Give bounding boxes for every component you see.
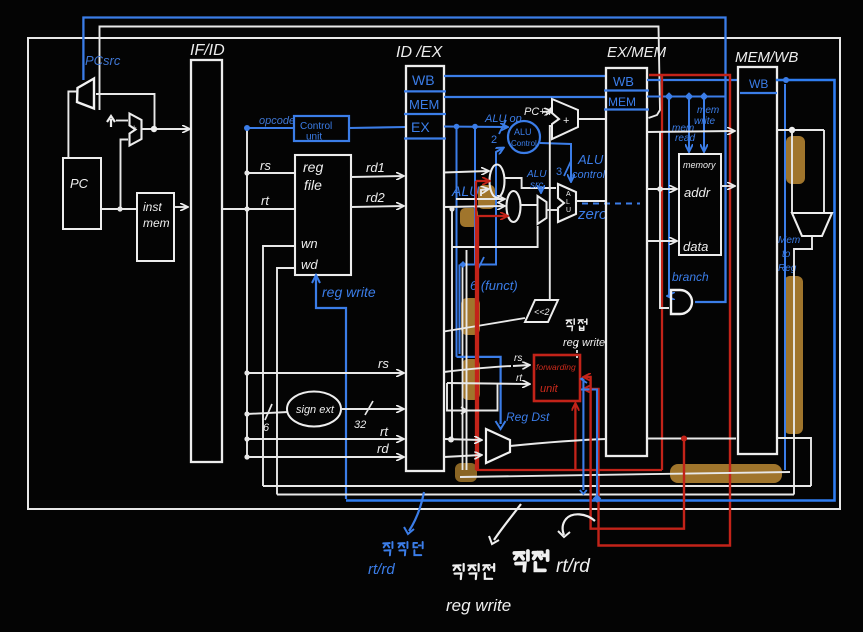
label previous rt/rd (white) xyxy=(514,551,547,571)
annotation arrow blue (to rt/rd bus) xyxy=(409,492,424,531)
wire: PC+4 out to IF/ID xyxy=(142,128,190,130)
mux ALUsrc xyxy=(538,196,547,224)
svg-text:rt/rd: rt/rd xyxy=(556,556,591,577)
wire: rd down to ID/EX xyxy=(247,456,403,458)
outer frame xyxy=(28,38,840,509)
wire: rt into forwarding unit xyxy=(447,383,529,384)
ALU xyxy=(558,184,576,222)
node: ALU result junction xyxy=(657,186,663,192)
pipeline register MEM/WB xyxy=(738,67,777,454)
svg-text:unit: unit xyxy=(306,132,322,143)
svg-text:to: to xyxy=(782,249,791,260)
wire: PC to +4 adder xyxy=(121,140,129,210)
wire: dashed hint into unit top xyxy=(576,344,578,358)
wire: store data to memory xyxy=(647,240,676,242)
wire: red up into forwarding unit bottom xyxy=(574,404,576,470)
wire: rd into Reg Dst mux xyxy=(444,455,481,457)
node: PC+4 junction xyxy=(151,126,157,132)
svg-text:Mem: Mem xyxy=(778,235,800,246)
wire: wd write-back xyxy=(277,268,295,495)
wire: reg write loop (blue) MEM/WB to reg file xyxy=(346,80,835,501)
svg-text:data: data xyxy=(683,239,708,254)
wire: ALU control to ALU xyxy=(540,143,571,181)
wire: control verticals in EX xyxy=(456,127,458,357)
svg-text:ALU: ALU xyxy=(514,127,532,137)
highlight bar (MEM/WB right upper) xyxy=(786,136,805,184)
svg-text:reg write: reg write xyxy=(563,337,605,349)
svg-text:reg: reg xyxy=(303,159,323,175)
wire: opcode to control unit xyxy=(247,127,294,129)
register PC xyxy=(63,158,101,229)
svg-text:Control: Control xyxy=(300,121,332,132)
svg-text:rt/rd: rt/rd xyxy=(368,561,395,578)
highlight bar (EX mux area upper) xyxy=(478,185,495,209)
wire: funct field to ALU control xyxy=(460,148,503,265)
svg-text:+: + xyxy=(563,115,569,127)
wire: PC+4 feedback into PCsrc mux xyxy=(96,94,155,129)
memory inst mem xyxy=(137,193,174,261)
wire: reg2 vertical tap xyxy=(451,209,453,440)
svg-text:Reg Dst: Reg Dst xyxy=(506,410,550,424)
svg-text:MEM: MEM xyxy=(409,97,439,112)
node: PC out junction xyxy=(117,206,122,211)
wire: branch target from EX adder back to PC mux (white, top) xyxy=(100,27,661,119)
svg-text:wn: wn xyxy=(301,236,318,251)
wire: forward B red xyxy=(478,215,507,217)
wire: shift left 2 to adder xyxy=(550,126,553,300)
mux forward B xyxy=(507,191,521,222)
wire: rs into reg file xyxy=(247,172,295,174)
svg-text:+: + xyxy=(132,123,137,133)
wire: vertical beside funct bars xyxy=(466,250,468,470)
wire: Reg Dst control down to mux (blue) xyxy=(457,357,501,424)
wire: mux A out to ALU xyxy=(504,178,556,188)
highlight bar (funct column lower) xyxy=(462,359,480,400)
wire: MEM control line with taps (blue) xyxy=(647,95,726,97)
wire: red into unit right (from EX/MEM tap) xyxy=(584,377,684,529)
wire: blue MEM/WB rd into unit xyxy=(581,390,597,499)
wire: rt into Reg Dst mux xyxy=(444,439,481,440)
svg-text:reg write: reg write xyxy=(322,284,376,300)
bus width 32 xyxy=(365,401,373,415)
wire: PC out to inst mem xyxy=(101,208,137,210)
highlight bar (funct column upper) xyxy=(461,298,480,335)
wire: rd1 to ID/EX xyxy=(351,176,403,177)
svg-text:rd1: rd1 xyxy=(366,160,385,175)
svg-text:L: L xyxy=(566,199,570,206)
svg-text:MEM/WB: MEM/WB xyxy=(735,49,798,66)
svg-text:memory: memory xyxy=(683,160,716,170)
wire: ALU result to EX/MEM xyxy=(576,200,606,202)
svg-text:addr: addr xyxy=(684,185,711,200)
svg-text:rt: rt xyxy=(261,193,270,208)
wire: WB signal EX/MEM to MEM/WB (blue) xyxy=(647,79,738,81)
register file xyxy=(295,155,351,275)
svg-text:rs: rs xyxy=(260,158,271,173)
wire: memory data to final mux xyxy=(777,129,824,131)
wire: PCsrc mux out to PC xyxy=(68,92,77,158)
wire: rt tap loop below forwarding inputs xyxy=(447,383,498,411)
wire: write-back lower horizontal (wd loop) xyxy=(277,494,794,496)
highlight bar (horizontal, write-back line) xyxy=(670,464,782,483)
wire: red horizontal to EX/MEM tap xyxy=(476,469,662,471)
wire: write-back lower horizontal (wn loop) xyxy=(263,485,811,487)
node: opcode tap xyxy=(244,125,250,131)
mux mem-to-reg xyxy=(792,213,832,236)
wire: rs down to ID/EX xyxy=(247,372,403,374)
wire: sign ext out to ID/EX xyxy=(341,408,403,410)
svg-text:6: 6 xyxy=(263,422,270,434)
svg-text:ALU: ALU xyxy=(577,152,604,167)
label previous reg write (white, above unit) xyxy=(566,319,587,331)
highlight bar (MEM/WB right long) xyxy=(784,276,803,434)
wire: dest register number through EX/MEM xyxy=(510,439,606,446)
wire: MEM signals ID/EX to EX/MEM (blue) xyxy=(444,96,606,98)
wire: instruction vertical bus xyxy=(246,128,248,458)
svg-text:WB: WB xyxy=(613,74,634,89)
svg-text:inst: inst xyxy=(143,200,162,214)
label passed rt/rd (blue) xyxy=(383,542,422,555)
wire: rt down to ID/EX xyxy=(247,438,403,440)
wire: ALUsrc mux out to ALU xyxy=(547,209,557,211)
adder PC+4 xyxy=(130,114,142,146)
mux PCsrc xyxy=(77,79,94,109)
svg-text:A: A xyxy=(566,191,571,198)
svg-text:Control: Control xyxy=(511,139,537,148)
wire: dest register number right of MEM/WB xyxy=(777,438,811,486)
wire: PCsrc from branch AND gate to PC mux (blue, top) xyxy=(83,18,725,303)
bus width 6 xyxy=(265,404,272,420)
wire: ALU op from EX section to ALU control xyxy=(444,125,507,128)
EX/MEM WB section xyxy=(604,89,649,91)
svg-text:PCsrc: PCsrc xyxy=(85,53,121,68)
wire: mux left leg xyxy=(791,130,793,212)
svg-text:2: 2 xyxy=(491,134,497,146)
wire: branch signal down to AND gate (blue) xyxy=(668,97,669,297)
wire: mux B upper input xyxy=(456,198,504,200)
svg-text:read: read xyxy=(675,133,695,144)
svg-text:branch: branch xyxy=(672,270,709,284)
wire: wn write-back xyxy=(263,246,295,486)
wire: blue EX/MEM rd into unit xyxy=(582,379,584,490)
svg-text:MEM: MEM xyxy=(608,95,636,109)
node: final mux input junction xyxy=(789,127,795,133)
svg-text:ALU: ALU xyxy=(526,169,547,180)
wire: inst mem out to IF/ID xyxy=(174,206,187,208)
wire: immediate up into ALUsrc mux xyxy=(452,226,538,247)
wire: rd2 to ID/EX xyxy=(351,206,403,207)
wire: forward red verticals xyxy=(475,181,477,470)
wire: red branch down EX/MEM side xyxy=(661,75,663,470)
svg-text:rs: rs xyxy=(378,356,389,371)
annotation arrow white (to reg write bus) xyxy=(494,504,521,540)
wire: white vertical beside funct line xyxy=(462,264,464,470)
wire: zero down to AND gate xyxy=(660,132,669,308)
svg-text:WB: WB xyxy=(749,77,768,91)
wire: mux right leg xyxy=(823,130,825,212)
wire: control out to ID/EX EX box xyxy=(349,127,405,128)
svg-text:mem: mem xyxy=(697,105,719,116)
node: rt tap xyxy=(244,206,249,211)
wire: immediate into sign ext xyxy=(247,412,288,414)
svg-text:control: control xyxy=(572,169,606,181)
wire: ALU result bypass to MEM/WB xyxy=(647,131,734,132)
node: red tap on dest register wire xyxy=(681,436,687,442)
pipeline register ID/EX xyxy=(406,66,444,471)
annotation hook arrow white (to red rt/rd wires) xyxy=(563,514,595,535)
svg-text:mem: mem xyxy=(143,216,170,230)
adder branch target xyxy=(552,99,578,139)
svg-text:wd: wd xyxy=(301,257,318,272)
wire: rd2 from ID/EX to mux B xyxy=(444,206,504,207)
memory data xyxy=(679,154,721,255)
pipeline register IF/ID xyxy=(191,60,222,462)
MEM/WB WB section xyxy=(740,92,777,94)
ID/EX MEM section xyxy=(404,113,446,115)
svg-text:WB: WB xyxy=(412,72,435,88)
svg-text:PC: PC xyxy=(70,176,89,191)
svg-text:ID /EX: ID /EX xyxy=(396,44,444,61)
svg-text:EX/MEM: EX/MEM xyxy=(607,44,667,61)
svg-text:rs: rs xyxy=(514,353,522,364)
svg-text:rd2: rd2 xyxy=(366,190,386,205)
wire: mem write into memory (blue) xyxy=(703,97,705,152)
mux forward A xyxy=(490,165,505,198)
svg-text:opcode: opcode xyxy=(259,115,295,127)
ID/EX EX section xyxy=(404,137,446,139)
control unit xyxy=(294,116,349,141)
svg-text:rt: rt xyxy=(380,424,389,439)
node: WB tap xyxy=(783,77,789,83)
label two-ago reg write (white) xyxy=(453,564,494,579)
svg-text:IF/ID: IF/ID xyxy=(190,42,225,59)
wire: mem read into memory (blue) xyxy=(688,97,690,152)
pipeline register EX/MEM xyxy=(606,68,647,456)
wire: mux B out to ALUsrc mux xyxy=(520,204,537,206)
svg-text:write: write xyxy=(694,116,716,127)
svg-text:32: 32 xyxy=(354,419,366,431)
svg-text:rd: rd xyxy=(377,441,389,456)
wire: mux A lower input xyxy=(481,189,488,196)
forwarding unit xyxy=(534,355,580,401)
svg-text:U: U xyxy=(566,207,571,214)
svg-text:zero: zero xyxy=(577,206,607,223)
wire: zero flag (dashed blue) xyxy=(582,203,640,205)
wire: ALU result to memory addr xyxy=(647,188,676,190)
wire: forward A red xyxy=(476,180,489,182)
svg-text:forwarding: forwarding xyxy=(536,362,576,372)
gate AND branch xyxy=(671,290,692,314)
shift left 2 xyxy=(525,300,558,322)
mux Reg Dst xyxy=(486,429,510,463)
wire: mux out down to wd loop xyxy=(794,236,812,495)
node: rs tap xyxy=(244,170,249,175)
highlight bar (EX mux area lower) xyxy=(460,208,478,227)
svg-text:reg write: reg write xyxy=(446,596,511,615)
ALU control unit xyxy=(508,121,540,153)
svg-text:3: 3 xyxy=(556,166,562,178)
wire: instruction out of IF/ID to reg file rt xyxy=(222,208,295,210)
EX/MEM MEM section xyxy=(604,108,649,110)
svg-text:EX: EX xyxy=(411,119,430,135)
wire: red WB loop from EX/MEM to forwarding unit xyxy=(584,75,730,546)
wire: WB signals ID/EX to EX/MEM (blue) xyxy=(444,75,606,77)
sign extend xyxy=(287,392,341,427)
wire: rd1 from ID/EX to mux A xyxy=(444,171,488,173)
wire: rs into forwarding unit xyxy=(444,366,511,372)
svg-text:sign ext: sign ext xyxy=(296,404,335,416)
wire: reg write into reg file (blue) xyxy=(316,277,346,499)
wire: immediate to shift left 2 xyxy=(444,318,525,332)
svg-text:<<2: <<2 xyxy=(534,307,550,317)
wire: write-back middle horizontal xyxy=(460,472,790,477)
svg-text:file: file xyxy=(304,177,322,193)
highlight blob (ID/EX bottom corner) xyxy=(455,463,477,482)
wire: memory read data to MEM/WB xyxy=(721,185,734,187)
wire: mem-to-reg vertical (blue) xyxy=(784,84,786,470)
svg-text:unit: unit xyxy=(540,383,559,395)
constant 4 symbol (small up arrow) xyxy=(107,116,115,127)
ID/EX WB section xyxy=(404,90,446,92)
